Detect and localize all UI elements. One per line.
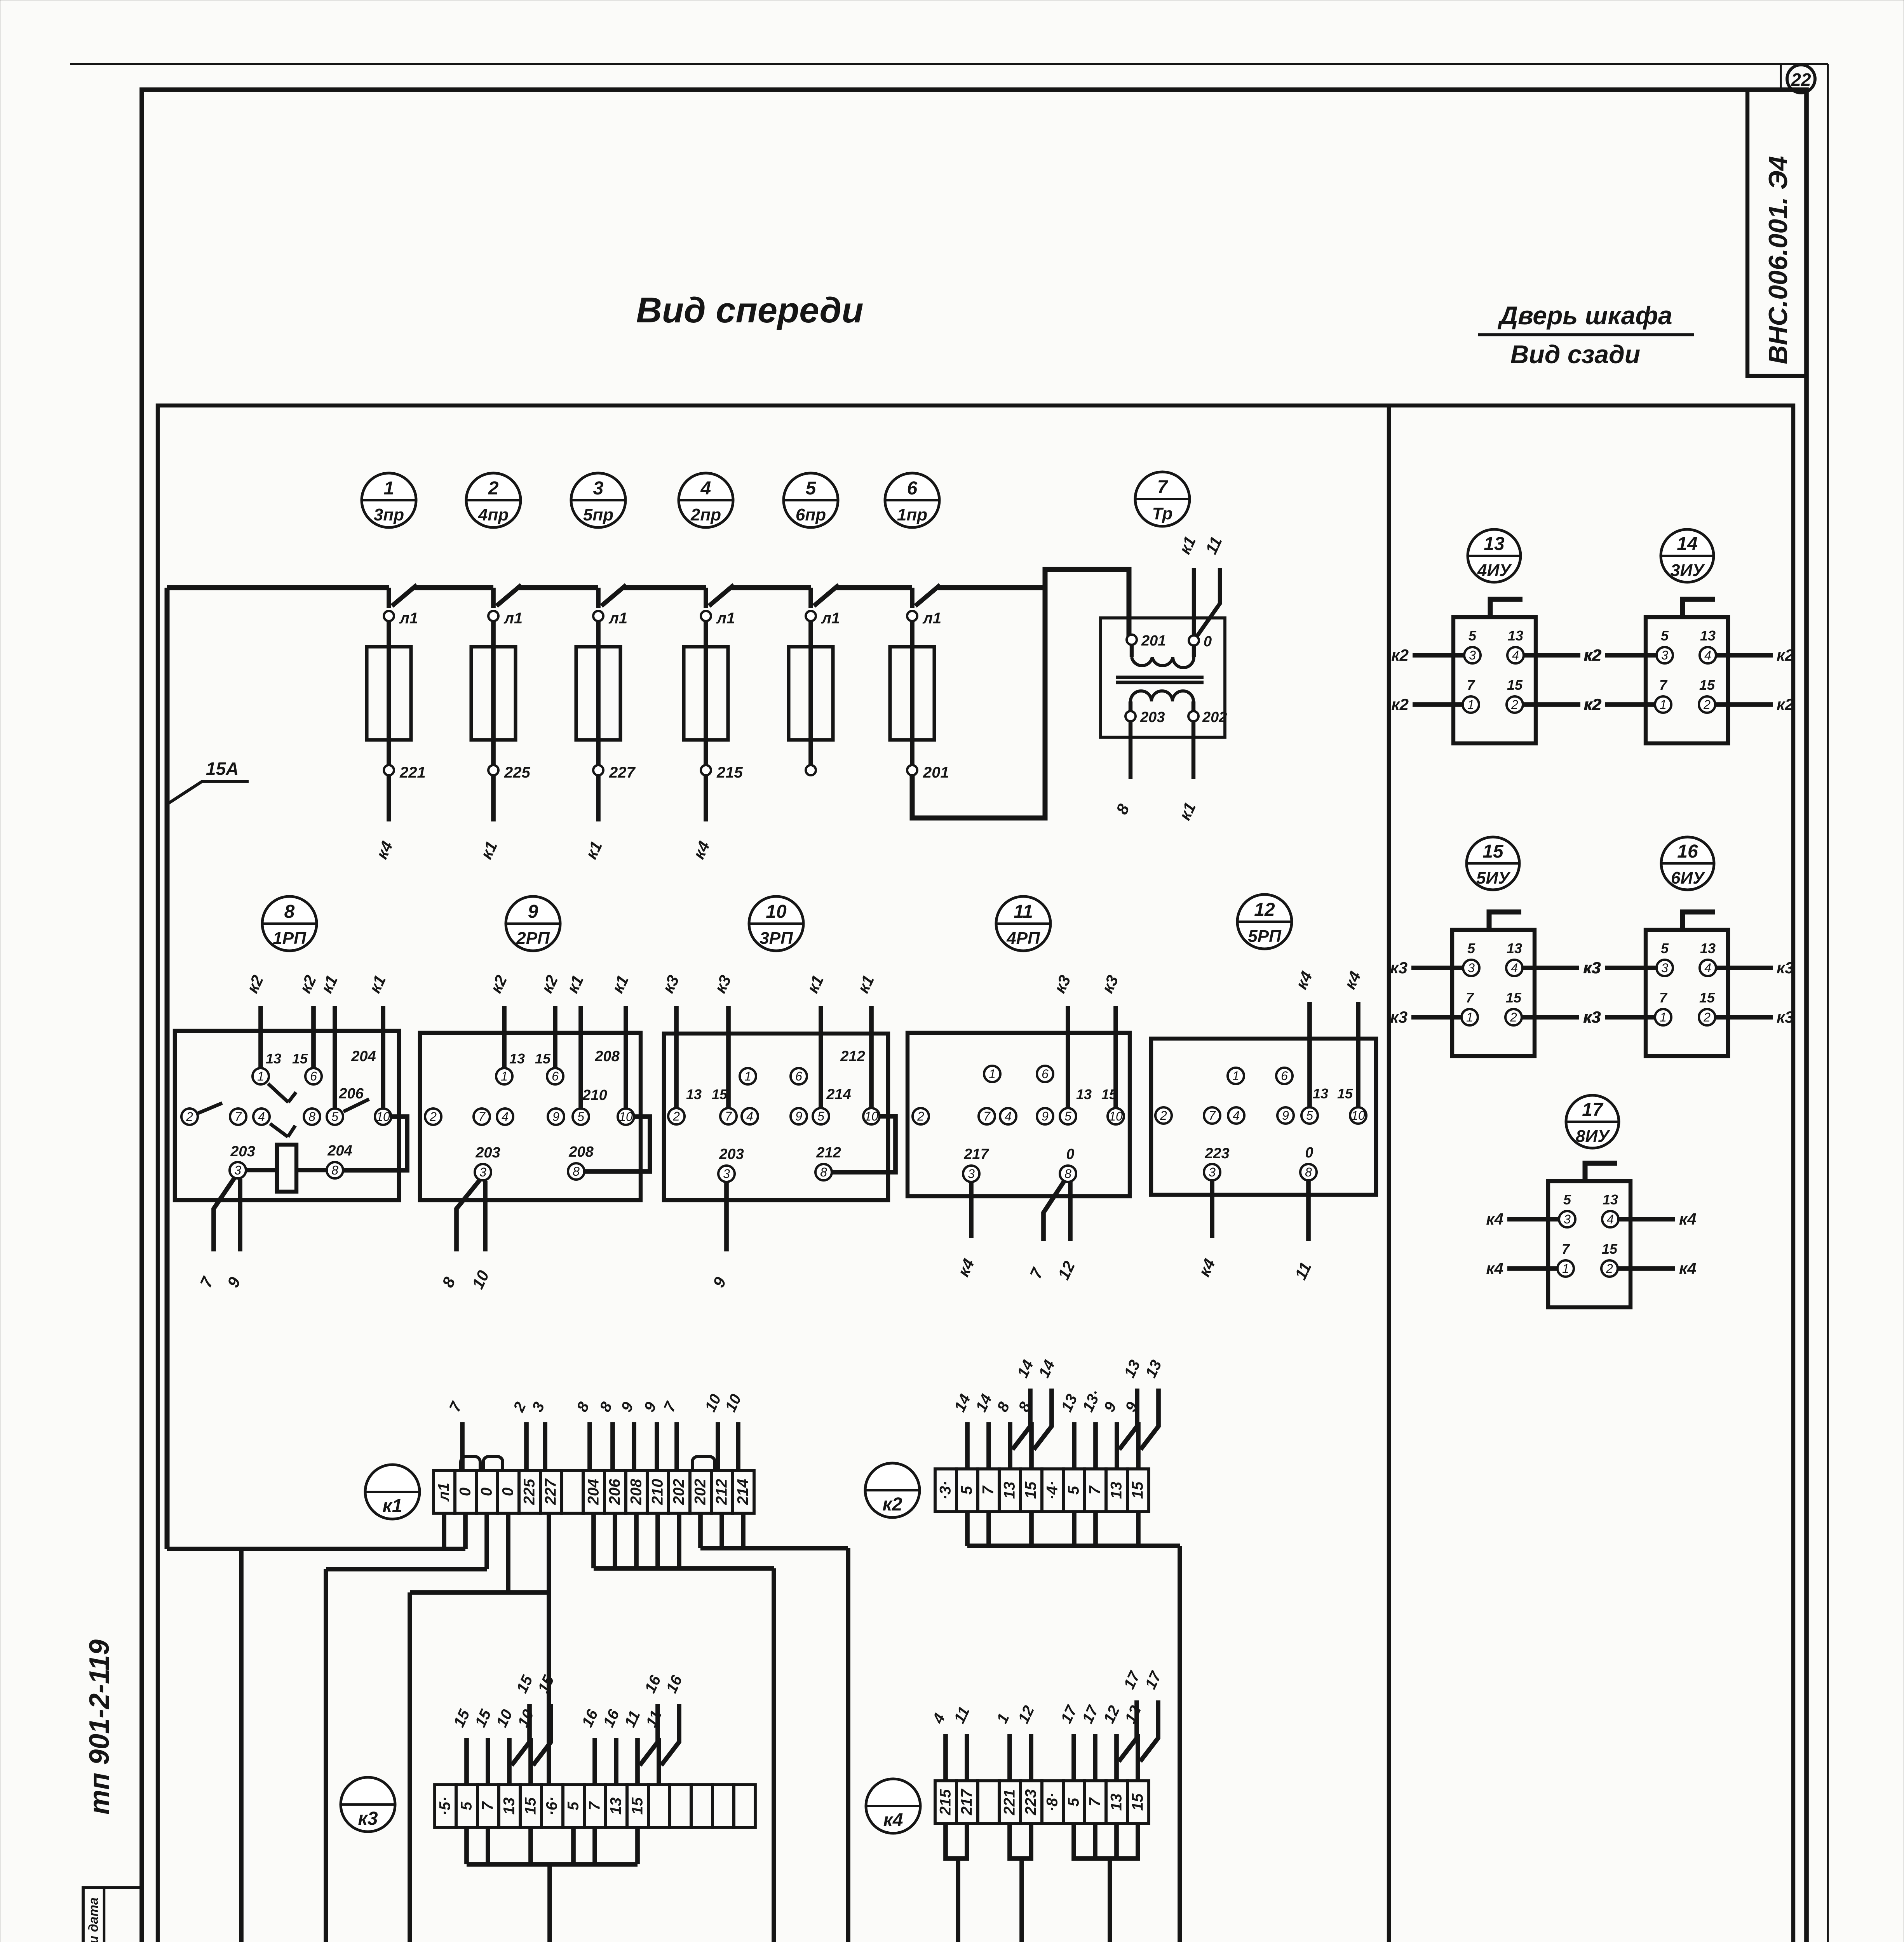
relay 3РП box (664, 1034, 888, 1200)
svg-text:15: 15 (1699, 990, 1715, 1006)
connector 16 pins (1657, 960, 1673, 976)
relay 5РП wire K4 (1210, 1181, 1214, 1238)
position circle 13 (4ИУ) (1468, 529, 1521, 582)
svg-text:15: 15 (535, 1051, 551, 1067)
K1 strip jumper hooks (461, 1456, 480, 1470)
wire to terminal strip к1 (596, 775, 601, 821)
svg-text:0: 0 (478, 1488, 495, 1496)
relay 4РП box (908, 1033, 1130, 1196)
K1 strip wires to panel (upper stubs) (460, 1422, 465, 1470)
svg-text:7: 7 (1157, 477, 1169, 498)
svg-text:7: 7 (586, 1801, 603, 1810)
wire bus segment 2 (519, 585, 598, 590)
connector 16 box (1646, 930, 1728, 1056)
svg-text:4: 4 (1512, 648, 1519, 662)
svg-text:·4·: ·4· (1044, 1481, 1061, 1500)
svg-text:к4: к4 (883, 1810, 903, 1831)
svg-text:6: 6 (1042, 1067, 1049, 1081)
svg-text:3: 3 (1209, 1165, 1216, 1179)
svg-text:л1: л1 (608, 610, 627, 627)
svg-text:5: 5 (817, 1109, 824, 1123)
wire K1:0/225 to 2ДМ-1 (410, 1590, 549, 1595)
left margin stamp table (83, 1888, 142, 1942)
connector 13 wires к2 (1413, 653, 1464, 658)
wire K4 221/223 to К8-8 (1010, 1824, 1031, 1858)
svg-text:тп 901-2-119: тп 901-2-119 (84, 1639, 115, 1815)
svg-text:1: 1 (1232, 1069, 1239, 1083)
terminal strip к1 circle (365, 1465, 420, 1519)
svg-text:1РП: 1РП (273, 929, 307, 948)
svg-text:2: 2 (1511, 698, 1518, 712)
relay 4РП wire K4 (969, 1182, 974, 1238)
svg-text:3: 3 (1469, 648, 1476, 662)
svg-text:4: 4 (1233, 1108, 1240, 1122)
position circle 2 (4пр) (466, 473, 521, 527)
position circle 1 (3пр) (362, 473, 416, 527)
svg-text:8: 8 (308, 1110, 315, 1124)
wire K1 202/212/214 bus to К5-4 (698, 1513, 703, 1548)
svg-text:4: 4 (700, 478, 711, 499)
svg-text:203: 203 (230, 1143, 255, 1160)
switch blade and fuse 4 (704, 588, 708, 608)
svg-text:6: 6 (310, 1069, 317, 1083)
svg-text:Тр: Тр (1152, 504, 1173, 523)
wire K4 215/217 to К6-3 (946, 1824, 967, 1858)
connector 16 wires к3 (1605, 966, 1657, 970)
svg-text:227: 227 (542, 1478, 559, 1505)
svg-text:4: 4 (746, 1109, 753, 1123)
svg-text:к4: к4 (1486, 1259, 1503, 1277)
svg-text:201: 201 (923, 764, 949, 781)
position circle 9 (2РП) (506, 896, 560, 951)
svg-text:5: 5 (1467, 940, 1475, 956)
terminal strip к4 cells (935, 1781, 956, 1824)
svg-text:5: 5 (1563, 1192, 1571, 1208)
svg-text:5пр: 5пр (583, 505, 613, 524)
svg-text:7: 7 (1562, 1241, 1570, 1257)
connector 16 key mark (1683, 912, 1715, 930)
connector 15 box (1452, 930, 1535, 1056)
svg-text:8: 8 (820, 1165, 827, 1179)
svg-text:3: 3 (479, 1165, 486, 1179)
transformer terminals (1127, 635, 1137, 645)
svg-text:215: 215 (937, 1789, 954, 1815)
svg-text:5РП: 5РП (1248, 927, 1282, 946)
relay 2РП terminals row 1 (496, 1068, 512, 1084)
svg-text:1: 1 (257, 1069, 264, 1083)
terminal strip к2 cells (935, 1469, 956, 1512)
svg-text:9: 9 (528, 901, 538, 922)
relay 2РП box (420, 1033, 641, 1200)
connector 13 key mark (1490, 599, 1523, 617)
svg-text:15: 15 (1023, 1481, 1040, 1499)
svg-text:4: 4 (258, 1110, 265, 1124)
svg-text:8: 8 (284, 901, 295, 922)
svg-text:13: 13 (266, 1051, 281, 1067)
svg-text:13: 13 (1313, 1086, 1328, 1102)
svg-text:5: 5 (958, 1486, 976, 1495)
wire bus to transformer drop (938, 585, 1045, 590)
wire K1 from transformer terminal 0 (1192, 568, 1196, 636)
connector 15 pins (1463, 960, 1479, 976)
svg-text:к3: к3 (1777, 959, 1794, 977)
svg-text:·3·: ·3· (937, 1481, 954, 1500)
relay 5РП terminals row 2 (1155, 1107, 1172, 1124)
relay 2РП wires to K2 K2 K1 K1 (502, 1006, 507, 1068)
switch blade and fuse 2 (491, 588, 496, 608)
relay 4РП wires 7 and 12 (1043, 1181, 1064, 1241)
svg-text:221: 221 (1001, 1789, 1018, 1816)
wire K2 strip bus to К3-3 (965, 1512, 970, 1546)
wire K1:0 to 1ДМ-1 (326, 1567, 487, 1571)
svg-text:7: 7 (235, 1110, 242, 1124)
terminal strip к3 circle (341, 1777, 395, 1832)
terminal strip к2 circle (865, 1463, 920, 1517)
outer thin page border (70, 63, 1828, 65)
svg-text:13: 13 (509, 1051, 525, 1067)
connector 14 key mark (1683, 599, 1715, 617)
svg-text:1: 1 (1660, 1010, 1667, 1024)
svg-text:5: 5 (1064, 1109, 1071, 1123)
wire K1 204/206/208/210/202 bus to К3-4 (591, 1513, 596, 1568)
svg-text:212: 212 (816, 1145, 841, 1161)
svg-text:л1: л1 (399, 610, 418, 627)
connector 17 box (1548, 1181, 1631, 1307)
wire 8 from transformer terminal 203 (1129, 721, 1132, 779)
svg-text:1: 1 (1467, 698, 1474, 712)
svg-text:15: 15 (1129, 1481, 1146, 1499)
svg-text:10: 10 (1109, 1109, 1123, 1123)
svg-text:4: 4 (502, 1110, 509, 1124)
svg-text:6ИУ: 6ИУ (1671, 868, 1705, 887)
svg-text:2: 2 (1703, 1010, 1711, 1024)
svg-text:1: 1 (989, 1067, 996, 1081)
connector 17 wires к4 (1507, 1217, 1559, 1222)
connector 17 pins (1559, 1211, 1575, 1227)
connector 14 wires к2 (1605, 653, 1657, 658)
document number stamp box BHC.006.001.Э4 (1747, 90, 1806, 376)
wire to terminal strip к4 (387, 775, 391, 821)
svg-text:5: 5 (1661, 940, 1669, 956)
svg-text:208: 208 (594, 1048, 620, 1065)
svg-text:6: 6 (552, 1069, 559, 1083)
relay 1РП wires 7 and 9 (214, 1178, 235, 1251)
relay 3РП terminals row 1 (740, 1068, 756, 1084)
supply bus 15A (167, 585, 389, 590)
svg-text:3ИУ: 3ИУ (1671, 561, 1705, 580)
position circle 5 (6пр) (784, 473, 838, 527)
switch blade and fuse 6 (910, 588, 915, 608)
svg-text:8ИУ: 8ИУ (1576, 1127, 1610, 1146)
K3 strip wires to panel (upper stubs) (464, 1738, 469, 1785)
relay 1РП wires to K2 K2 K1 K1 (258, 1006, 263, 1068)
svg-text:204: 204 (585, 1479, 602, 1505)
svg-text:17: 17 (1582, 1100, 1604, 1120)
svg-text:9: 9 (795, 1109, 802, 1123)
wire bus segment 4 (732, 585, 811, 590)
svg-text:203: 203 (475, 1145, 500, 1161)
svg-text:208: 208 (568, 1144, 594, 1160)
relay 4РП terminals row 3 (963, 1166, 979, 1182)
svg-text:5: 5 (1661, 628, 1669, 644)
svg-text:6: 6 (907, 478, 918, 499)
svg-text:5: 5 (1065, 1486, 1082, 1495)
svg-text:10: 10 (864, 1109, 878, 1123)
svg-text:к2: к2 (1777, 695, 1794, 713)
svg-text:206: 206 (606, 1479, 624, 1505)
svg-text:14: 14 (1677, 534, 1697, 554)
svg-text:13: 13 (1001, 1482, 1018, 1499)
wire K1 from transformer terminal 202 (1192, 721, 1195, 779)
svg-text:л1: л1 (821, 610, 840, 627)
svg-text:13: 13 (1484, 534, 1505, 554)
svg-text:3: 3 (1661, 648, 1668, 662)
sheet number circle 22 (1780, 64, 1782, 90)
wire 11 from transformer terminal 0 (1197, 568, 1220, 636)
svg-text:1: 1 (1466, 1010, 1473, 1024)
K4 strip wires to panel (upper stubs) (943, 1734, 948, 1781)
position circle 4 (2пр) (679, 473, 733, 527)
svg-text:204: 204 (327, 1143, 352, 1159)
svg-text:0: 0 (1204, 633, 1212, 650)
connector 13 box (1453, 617, 1536, 743)
terminal strip к3 cells (435, 1785, 456, 1827)
svg-text:0: 0 (457, 1488, 474, 1496)
relay 1РП contact blades (268, 1084, 288, 1102)
svg-text:214: 214 (826, 1086, 851, 1103)
svg-text:22: 22 (1791, 70, 1811, 90)
svg-text:2: 2 (1703, 698, 1711, 712)
svg-text:2: 2 (186, 1110, 193, 1124)
svg-text:л1: л1 (435, 1483, 453, 1502)
relay 1РП box (175, 1031, 399, 1200)
svg-text:212: 212 (840, 1048, 865, 1065)
svg-text:4: 4 (1607, 1212, 1614, 1226)
svg-text:6пр: 6пр (796, 505, 826, 524)
svg-text:л1: л1 (716, 610, 735, 627)
svg-text:10: 10 (766, 901, 787, 922)
svg-text:2РП: 2РП (516, 929, 550, 948)
position circle 3 (5пр) (571, 473, 625, 527)
svg-text:7: 7 (479, 1801, 496, 1810)
svg-text:3пр: 3пр (374, 505, 404, 524)
relay 1РП terminals row 3 (230, 1162, 246, 1178)
svg-text:л1: л1 (922, 610, 941, 627)
svg-text:3: 3 (1564, 1212, 1571, 1226)
svg-text:6: 6 (795, 1069, 802, 1083)
switch blade and fuse 3 (596, 588, 601, 608)
wire bus segment 1 (415, 585, 493, 590)
svg-text:7: 7 (1659, 990, 1668, 1006)
relay 4РП wires to K3 K3 (1066, 1006, 1070, 1108)
svg-text:7: 7 (1467, 677, 1475, 693)
svg-text:15: 15 (292, 1051, 308, 1067)
svg-text:4: 4 (1511, 961, 1518, 975)
svg-text:4: 4 (1005, 1109, 1012, 1123)
relay 5РП terminals row 3 (1204, 1164, 1220, 1180)
svg-text:4: 4 (1704, 648, 1711, 662)
svg-text:к4: к4 (1679, 1259, 1697, 1277)
svg-text:Вид сзади: Вид сзади (1510, 340, 1640, 369)
svg-text:2: 2 (1510, 1010, 1517, 1024)
svg-text:225: 225 (521, 1479, 538, 1505)
svg-text:3: 3 (234, 1163, 241, 1177)
transformer Тр position circle 7 (1135, 472, 1190, 526)
svg-text:2: 2 (1160, 1108, 1167, 1122)
svg-text:10: 10 (1351, 1108, 1365, 1122)
svg-text:208: 208 (628, 1479, 645, 1505)
svg-text:к2: к2 (1777, 646, 1794, 664)
svg-text:2: 2 (429, 1110, 437, 1124)
relay 1РП terminals row 2 (181, 1108, 198, 1125)
wire from fuse 6 to transformer primary (912, 569, 1129, 818)
svg-text:7: 7 (1087, 1797, 1104, 1806)
svg-text:15: 15 (522, 1797, 539, 1815)
svg-text:203: 203 (719, 1146, 744, 1162)
svg-text:7: 7 (1209, 1108, 1216, 1122)
svg-text:13: 13 (608, 1798, 625, 1815)
svg-text:1: 1 (384, 478, 394, 499)
svg-text:7: 7 (725, 1109, 732, 1123)
svg-text:·6·: ·6· (544, 1797, 561, 1816)
svg-text:202: 202 (692, 1479, 709, 1505)
svg-text:0: 0 (500, 1488, 517, 1496)
svg-text:к3: к3 (358, 1808, 378, 1829)
svg-text:к3: к3 (1390, 1008, 1408, 1026)
svg-text:13: 13 (1108, 1482, 1125, 1499)
svg-text:4пр: 4пр (478, 505, 509, 524)
svg-text:к3: к3 (1583, 1008, 1601, 1026)
svg-text:5: 5 (1469, 628, 1477, 644)
wire 15A feeder (165, 588, 170, 1549)
svg-text:206: 206 (338, 1086, 364, 1102)
wire bus segment 3 (624, 585, 706, 590)
svg-text:217: 217 (958, 1789, 976, 1815)
svg-text:15: 15 (1129, 1793, 1146, 1811)
svg-text:223: 223 (1204, 1145, 1229, 1162)
wire K1:227 down to K3 strip (547, 1592, 551, 1784)
svg-text:4ИУ: 4ИУ (1477, 561, 1512, 580)
svg-text:2: 2 (672, 1109, 680, 1123)
svg-text:·8·: ·8· (1044, 1793, 1061, 1812)
switch blade and fuse 5 (808, 588, 813, 608)
svg-text:8: 8 (1064, 1167, 1071, 1181)
svg-text:к2: к2 (1391, 695, 1409, 713)
connector 15 wires к3 (1411, 966, 1463, 970)
wire to terminal strip к1 (491, 775, 496, 821)
svg-text:к3: к3 (1390, 959, 1408, 977)
svg-text:15: 15 (1482, 841, 1504, 862)
svg-text:13: 13 (1076, 1086, 1092, 1102)
svg-text:15: 15 (1506, 990, 1522, 1006)
transformer Тр box (1101, 618, 1225, 737)
label 15A with leader (169, 781, 249, 803)
svg-text:8: 8 (1305, 1165, 1312, 1179)
svg-text:202: 202 (1202, 709, 1227, 726)
svg-text:202: 202 (671, 1479, 688, 1505)
relay 5РП box (1151, 1039, 1376, 1195)
svg-text:2: 2 (488, 478, 499, 499)
svg-text:0: 0 (1066, 1146, 1074, 1162)
position circle 8 (1РП) (262, 896, 317, 951)
svg-text:10: 10 (376, 1110, 390, 1124)
relay 5РП terminals row 1 (1228, 1068, 1244, 1084)
svg-text:5: 5 (458, 1801, 475, 1810)
svg-text:7: 7 (1659, 677, 1668, 693)
relay 1РП coil (277, 1145, 296, 1192)
svg-text:15: 15 (1602, 1241, 1618, 1257)
svg-text:9: 9 (1042, 1109, 1049, 1123)
svg-text:к3: к3 (1777, 1008, 1794, 1026)
svg-text:223: 223 (1023, 1789, 1040, 1816)
svg-text:203: 203 (1140, 709, 1165, 726)
svg-text:225: 225 (504, 764, 530, 781)
wire bus segment 5 (836, 585, 912, 590)
svg-text:210: 210 (582, 1087, 607, 1103)
relay 2РП terminals row 3 (475, 1164, 491, 1180)
svg-text:13: 13 (501, 1798, 518, 1815)
svg-text:15: 15 (1507, 677, 1523, 693)
svg-text:Подпись и дата: Подпись и дата (86, 1897, 101, 1942)
svg-text:15А: 15А (206, 759, 239, 779)
svg-text:8: 8 (331, 1163, 338, 1177)
wire from bus 15A / K1:Л1 / K1:0 to ЯУ-1 (167, 1547, 465, 1551)
svg-text:4РП: 4РП (1006, 929, 1040, 948)
svg-text:201: 201 (1141, 633, 1166, 649)
svg-text:1: 1 (1562, 1262, 1569, 1276)
position circle 12 (5РП) (1237, 894, 1292, 949)
svg-text:1: 1 (501, 1069, 508, 1083)
svg-text:7: 7 (983, 1109, 991, 1123)
svg-text:3: 3 (1468, 961, 1475, 975)
svg-text:204: 204 (351, 1048, 376, 1065)
svg-text:к1: к1 (382, 1496, 402, 1516)
svg-text:9: 9 (1282, 1108, 1289, 1122)
svg-text:13: 13 (1508, 628, 1523, 644)
transformer core (1116, 675, 1204, 679)
svg-text:7: 7 (1466, 990, 1474, 1006)
position circle 6 (1пр) (885, 473, 939, 527)
svg-text:0: 0 (1305, 1145, 1313, 1161)
svg-text:13: 13 (1700, 940, 1716, 956)
svg-text:1: 1 (1660, 698, 1667, 712)
relay 3РП wire 9 (724, 1182, 729, 1251)
svg-text:1пр: 1пр (897, 505, 927, 524)
switch blade and fuse 1 (387, 588, 391, 608)
svg-text:3: 3 (1661, 961, 1668, 975)
svg-text:217: 217 (963, 1146, 989, 1162)
connector 15 key mark (1489, 912, 1521, 930)
transformer primary winding (1130, 644, 1134, 657)
svg-text:7: 7 (478, 1110, 486, 1124)
relay 2РП jumper 10 to 8 (585, 1117, 650, 1171)
terminal strip к4 circle (866, 1779, 920, 1833)
svg-text:8: 8 (573, 1164, 580, 1178)
connector 17 key mark (1585, 1163, 1617, 1181)
svg-text:3: 3 (968, 1167, 975, 1181)
svg-text:5: 5 (331, 1110, 338, 1124)
svg-text:227: 227 (609, 764, 636, 781)
svg-text:13: 13 (1108, 1794, 1125, 1811)
svg-text:к4: к4 (1486, 1210, 1503, 1228)
wire K4 5/7/13/15 to К8-7 (1074, 1824, 1138, 1858)
svg-text:5ИУ: 5ИУ (1476, 868, 1511, 887)
svg-text:212: 212 (713, 1479, 730, 1505)
svg-text:·5·: ·5· (437, 1797, 454, 1816)
inner drawing box (front view) (158, 405, 1793, 1942)
divider between front view and door view (1387, 405, 1391, 1942)
position circle 16 (6ИУ) (1661, 837, 1714, 890)
